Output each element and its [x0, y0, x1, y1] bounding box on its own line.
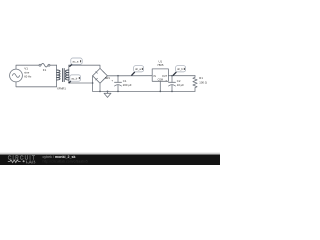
logo LAB	[23, 160, 25, 162]
svg-text:100 Ω: 100 Ω	[199, 80, 207, 84]
wire transformer secondary top to bridge	[69, 65, 100, 68]
svg-text:10 µF: 10 µF	[177, 83, 184, 87]
svg-text:+: +	[165, 79, 167, 83]
bridge rectifier BR1	[93, 68, 108, 83]
capacitor C1	[115, 75, 122, 92]
svg-text:IN: IN	[154, 75, 157, 78]
wire transformer secondary bottom	[69, 82, 93, 84]
capacitor C2	[169, 75, 176, 92]
flag ac_b	[69, 75, 81, 83]
svg-text:sine: sine	[24, 71, 29, 75]
svg-text:60 Hz: 60 Hz	[24, 75, 32, 79]
flag dc_out	[173, 66, 186, 76]
footer bar	[0, 152, 220, 165]
wire U1 out to R1	[168, 75, 195, 77]
svg-text:LAB: LAB	[26, 159, 36, 164]
flag ac_a	[69, 58, 82, 67]
transformer XFMR1	[57, 65, 69, 87]
svg-text:F1: F1	[43, 68, 47, 72]
logo zigzag	[8, 160, 21, 163]
wire source top to fuse	[16, 65, 39, 69]
node bottom rail	[93, 90, 195, 92]
svg-text:V1: V1	[24, 67, 28, 71]
svg-text:200 µF: 200 µF	[123, 83, 132, 87]
svg-text:BR1: BR1	[105, 77, 110, 80]
svg-text:ac_a: ac_a	[73, 61, 79, 64]
svg-text:XFMR1: XFMR1	[57, 86, 66, 90]
voltage regulator U1 box	[152, 69, 168, 92]
wire bridge right vertex / output rail	[107, 75, 152, 77]
svg-text:ac_b: ac_b	[71, 77, 77, 81]
svg-text:dc_b: dc_b	[177, 67, 183, 71]
svg-text:http://circuitlab.com/c/8aabv5: http://circuitlab.com/c/8aabv5	[43, 159, 88, 163]
svg-text:OUT: OUT	[162, 75, 168, 78]
wire bridge bottom vertex to ground rail	[99, 83, 101, 91]
svg-text:7805: 7805	[157, 63, 164, 67]
wire bridge left vertex down to ground rail	[92, 76, 94, 92]
ground	[104, 91, 111, 98]
junction bridge bottom on rail	[99, 91, 101, 93]
flag dc_in	[131, 66, 143, 76]
svg-text:COM: COM	[158, 80, 163, 82]
svg-text:+: +	[111, 79, 113, 83]
resistor R1	[193, 76, 197, 92]
fuse F1	[39, 63, 50, 67]
voltage source V1	[10, 69, 23, 82]
wire source bottom to transformer primary bottom	[16, 82, 57, 87]
svg-text:dc_a: dc_a	[135, 67, 141, 71]
junction secondary bottom / bridge left	[92, 82, 94, 84]
wire fuse to transformer primary	[50, 64, 57, 66]
